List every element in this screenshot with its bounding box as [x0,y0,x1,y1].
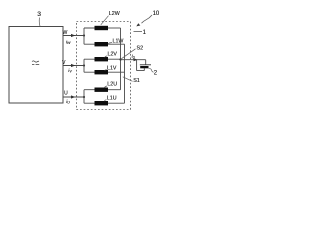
wire L2V to bus S2 [108,58,121,60]
leader for L2U [104,86,107,88]
svg-text:iU: iU [66,99,70,105]
coil L2W [95,26,109,30]
arrowhead iU [71,95,75,98]
wire fork U [84,90,95,104]
leader for L2W [101,16,109,25]
leader for S2 [122,49,136,59]
wire i0 [121,59,146,61]
wire L1U to bus S1 [108,102,125,104]
junction node V [83,64,85,66]
dashed machine box 10 [77,22,131,110]
leader for L1U [104,100,106,101]
svg-text:S1: S1 [133,78,140,84]
converter box 3 [9,27,63,104]
svg-text:L2U: L2U [107,82,117,88]
svg-text:L1V: L1V [107,65,117,71]
wire W [63,35,84,37]
svg-text:10: 10 [153,11,160,17]
wire fork W [84,28,95,44]
leader for label 2 [149,69,154,73]
svg-text:L1U: L1U [107,95,117,101]
svg-text:i0: i0 [132,54,135,60]
battery 2 thick plate [140,66,148,68]
junction node U [83,96,85,98]
svg-text:W: W [63,30,68,36]
svg-text:V: V [62,60,66,66]
converter symbol (AC/DC marks) [32,61,39,62]
svg-text:S2: S2 [137,46,144,52]
svg-text:L2W: L2W [109,11,120,17]
arrowhead i0 [134,58,138,61]
battery 2 thin plate [140,64,151,66]
leader for label 1 [134,31,143,33]
junction node W [83,34,85,36]
arrowhead iV [71,64,75,67]
arrowhead iW [71,34,75,37]
coil L2U [95,88,109,92]
svg-text:3: 3 [37,11,41,18]
coil L1U [95,101,109,105]
coil L2V [95,57,109,61]
svg-text:iW: iW [66,39,71,45]
svg-text:2: 2 [154,70,158,76]
svg-text:iV: iV [68,68,72,74]
wire L2W to bus S2 [108,27,121,29]
svg-text:L2V: L2V [108,52,118,58]
wire V [63,65,84,67]
wire L1V to bus S1 [108,71,125,73]
svg-text:1: 1 [143,30,147,36]
svg-text:U: U [64,90,68,96]
bus S2 [120,28,122,90]
leader for L1W [108,43,112,44]
wire L1W to bus S1 [108,43,125,45]
battery 2 wiring [137,60,146,71]
leader for L2V [105,56,108,57]
curved arrow for 10 [142,15,153,23]
coil L1W [95,42,109,46]
leader for label 3 [38,18,41,27]
svg-text:L1W: L1W [113,38,124,44]
wire U [63,96,84,98]
leader for S1 [123,77,133,82]
coil L1V [95,70,109,74]
wire L2U to bus S2 [108,89,121,91]
wire fork V [84,59,95,72]
bus S1 [124,44,126,103]
star point node S2 [119,58,121,60]
leader for L1V [105,69,107,72]
